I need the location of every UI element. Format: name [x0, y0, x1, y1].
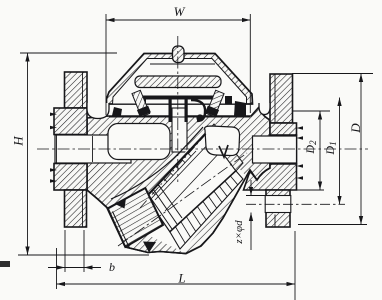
screen element lines [155, 139, 222, 211]
right flange hub line upper [274, 74, 276, 123]
right flange bore [253, 136, 297, 163]
right flange lower hub [244, 164, 297, 190]
elbow blob [196, 114, 203, 121]
dim H [20, 52, 117, 54]
body top line [109, 116, 250, 118]
right flange upper lug [270, 123, 297, 135]
svg-text:H: H [11, 136, 26, 147]
strainer screen axis [140, 134, 206, 208]
upper rail inner band [150, 151, 197, 201]
left flange lower lug [54, 164, 87, 191]
left bore face line [56, 135, 58, 163]
inner shelf line [150, 63, 215, 65]
strainer bore white halo [136, 129, 246, 252]
dim L [56, 248, 58, 289]
hex cap [108, 188, 164, 247]
bonnet shell [107, 54, 253, 105]
svg-text:z×φd: z×φd [233, 220, 245, 245]
seat piece white [205, 126, 240, 156]
cap joint blob bottom [143, 242, 156, 253]
mesh ladder band lower [170, 171, 243, 249]
disc bar [135, 76, 221, 88]
seat bars [169, 96, 172, 123]
svg-text:W: W [174, 4, 186, 19]
left flange hub line upper [82, 72, 84, 108]
flange face ticks right [297, 126, 304, 129]
svg-text:D: D [348, 123, 363, 134]
dim b [64, 230, 66, 272]
spring plate bar [142, 96, 217, 102]
seat V mark [219, 145, 228, 157]
left bore counterbore line [92, 136, 94, 162]
flange back slot left U [87, 103, 109, 119]
left stud [131, 90, 151, 118]
dim W [105, 14, 107, 115]
central channel [172, 108, 187, 152]
cap face inner line [113, 212, 130, 249]
bonnet interior [113, 59, 247, 105]
dim D [292, 73, 373, 75]
vertical centerline [177, 36, 179, 182]
screen upper rail [146, 132, 207, 197]
dim z x phi d [250, 180, 252, 196]
cap base shadow wedges [112, 107, 122, 116]
dim D1 [339, 98, 341, 205]
svg-text:b: b [109, 260, 115, 274]
left flange lower column [65, 190, 87, 227]
thread rungs at cap joint [148, 184, 182, 229]
right flange lower column [266, 190, 290, 227]
cap joint blob top [115, 198, 126, 209]
collar hatch at screen end [207, 124, 243, 171]
right flange bolt hole slot [265, 196, 291, 213]
horizontal centerline [37, 148, 368, 150]
right flange upper column [270, 74, 293, 123]
left flange upper lug [54, 108, 87, 135]
guide elbow [191, 100, 205, 121]
right stud [205, 90, 225, 118]
left hook [142, 99, 147, 112]
body outline restroke [87, 168, 270, 254]
left flange upper column [65, 72, 88, 108]
flange face ticks left [50, 113, 57, 117]
right flange hub line lower [274, 215, 276, 228]
upper bore wall boundary [111, 127, 203, 199]
svg-text:L: L [177, 271, 185, 286]
right hook [212, 99, 217, 112]
bolt hole top edge extension [246, 195, 266, 197]
body central hatched mass [87, 107, 297, 254]
screen body white [146, 132, 236, 232]
dim D2 [293, 110, 330, 112]
left chamber [108, 124, 170, 160]
left flange bore [55, 135, 131, 163]
flange back slot right U [259, 103, 270, 115]
strainer axis main [118, 153, 247, 246]
bolt hole centerline [246, 203, 345, 205]
top knob [173, 46, 185, 63]
screen lower rail [170, 171, 236, 232]
left flange hub line lower [82, 190, 84, 227]
